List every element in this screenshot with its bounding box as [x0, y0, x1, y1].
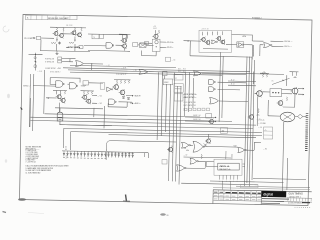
wire bus v3	[166, 84, 167, 132]
wire dash feed r1	[228, 80, 256, 83]
wire U23 out	[149, 71, 186, 74]
transistor Q7b inside	[155, 41, 158, 44]
svg-text:▪BLK L▪: ▪BLK L▪	[135, 103, 141, 105]
svg-text:▪51▪: ▪51▪	[186, 150, 189, 152]
gate U20 big	[193, 141, 203, 152]
box top bm	[206, 114, 212, 118]
diode row group 1	[63, 151, 65, 157]
wire bottom rail 2	[88, 49, 130, 52]
wire bot right band2	[253, 178, 306, 179]
transistor Q5	[122, 39, 126, 43]
gate U8 NAND	[56, 81, 63, 87]
wire bm feed1	[184, 147, 187, 149]
wire rail right tail	[136, 151, 149, 153]
box chain	[152, 39, 160, 51]
wire vcc TL2	[53, 89, 67, 91]
wire input to Q1	[41, 37, 54, 39]
resistor R10	[202, 32, 203, 36]
wire row2 to U7	[62, 61, 73, 63]
wire q16 in	[255, 92, 257, 94]
wire U17 out	[219, 100, 248, 103]
arrow out d2	[132, 103, 133, 105]
resistor R16	[84, 91, 85, 95]
gate U5 boxed	[237, 42, 244, 48]
gate U15 NAND	[209, 80, 214, 85]
box left edge F	[100, 83, 105, 89]
resistor R20	[121, 80, 122, 84]
wire bus r1	[244, 57, 247, 187]
wire U6 out up	[252, 40, 263, 42]
wire box down	[40, 40, 42, 51]
wire out r1	[298, 87, 304, 89]
arrow out d1	[132, 95, 133, 97]
IC side ticks	[243, 163, 245, 165]
faint arc left margin	[3, 26, 9, 32]
faint mark below frame	[28, 213, 44, 214]
IC U22 ONE SHOT	[218, 163, 239, 170]
vertical title strip	[306, 113, 309, 115]
column box 2	[174, 84, 183, 93]
wire U12 loop	[108, 106, 127, 108]
gate U22b	[238, 147, 245, 152]
box right col	[264, 127, 273, 139]
wire Q drop 2	[74, 44, 76, 51]
resistor R15	[65, 91, 66, 95]
IC outer box	[214, 159, 242, 175]
wire out line 2	[272, 45, 284, 47]
svg-text:▪2V▪: ▪2V▪	[58, 68, 62, 70]
tick on left border	[21, 107, 23, 109]
wire out d2	[130, 102, 133, 104]
diode row group 2	[107, 152, 109, 158]
title block grid	[213, 190, 312, 192]
wire rect right out	[232, 34, 253, 36]
wire bus r3	[249, 57, 252, 187]
transistor Q9b	[221, 40, 225, 44]
wire vcc out stage	[260, 72, 269, 74]
svg-text:H SYNC IN: H SYNC IN	[45, 58, 55, 60]
bump box above title	[241, 185, 259, 188]
resistor R28	[201, 154, 202, 159]
speck left edge	[3, 212, 7, 213]
size letter dark	[302, 202, 310, 204]
resistor R6 diag	[69, 42, 74, 43]
wire amp to U2	[84, 44, 106, 47]
wire tb feed1	[221, 181, 223, 190]
transistor Q12	[83, 95, 87, 99]
gate U9 NAND	[69, 83, 76, 89]
arrow out r2	[303, 94, 304, 96]
wire band4	[60, 125, 254, 129]
IC box U13	[163, 79, 173, 85]
wire u22b corner	[253, 143, 255, 151]
wire bus mid 3	[68, 70, 284, 75]
transistor Q10	[57, 95, 61, 99]
faint speck left 3	[5, 159, 7, 163]
wire U7 out	[84, 63, 103, 65]
transistor Q20	[210, 120, 214, 124]
wire U9-U10	[81, 85, 85, 87]
wire U2 to Q5	[116, 44, 123, 46]
wire q19 up	[207, 134, 209, 139]
svg-text:1K 2.2K: 1K 2.2K	[66, 25, 73, 27]
wire ic top links	[225, 151, 227, 159]
transistor Q4	[78, 33, 82, 37]
transistor Q14	[114, 85, 119, 90]
svg-text:ONE SHOT ▪4▪: ONE SHOT ▪4▪	[219, 169, 231, 171]
transistor Q19	[207, 139, 211, 143]
wire U15 out	[218, 81, 247, 84]
wire bus v4	[169, 84, 171, 181]
wire chain corner v	[141, 51, 143, 56]
wire rect right drop	[251, 35, 253, 41]
resistor R17	[88, 91, 89, 95]
resistor R25	[292, 72, 293, 76]
wire U5 out	[244, 44, 252, 46]
box 470	[221, 128, 228, 134]
wire band7	[109, 135, 257, 138]
svg-text:SYNC L ▪: SYNC L ▪	[23, 85, 31, 87]
wire ic left	[206, 165, 218, 167]
transistor Q7	[154, 34, 158, 38]
gate U23 OR top	[139, 69, 148, 74]
wire bus mid 2	[63, 68, 250, 72]
wire tr inner bottom	[203, 48, 228, 51]
IC pins	[218, 175, 220, 179]
gate U17 OR big	[210, 97, 219, 104]
resistor R4	[81, 27, 82, 31]
wire q3 drop	[74, 37, 76, 42]
wire down pair a	[219, 52, 220, 122]
component extra	[147, 153, 149, 158]
wire tb top line	[236, 186, 310, 188]
wire top link boxes	[88, 33, 127, 36]
transistor Q19b	[278, 101, 283, 106]
wire above title	[213, 188, 310, 190]
gate U21 small	[190, 158, 197, 164]
wire gun feed	[268, 115, 280, 117]
faint speck left 2	[7, 94, 10, 98]
wire xbox link	[138, 44, 140, 46]
wire chain in	[140, 42, 152, 44]
gate U7 OR	[76, 61, 84, 67]
smudge bottom-left corner	[18, 198, 26, 201]
diode D3	[127, 98, 129, 100]
resistor R19	[117, 80, 118, 84]
wire loop to rail	[181, 182, 211, 185]
wire arrowed left	[184, 40, 202, 42]
wire vcc center	[114, 79, 131, 81]
svg-text:digital: digital	[263, 193, 273, 197]
arrow into U3	[187, 40, 188, 42]
speck bottom mid	[160, 213, 166, 215]
svg-text:COMP SYNC: COMP SYNC	[45, 68, 57, 70]
column box 1	[174, 75, 183, 80]
wire label B in	[33, 85, 56, 88]
wire u24 corner	[204, 162, 206, 168]
wire out c1	[92, 95, 97, 97]
gate U6 NOR	[264, 43, 271, 48]
arrow out r1	[303, 88, 304, 90]
wire loop top	[111, 141, 177, 142]
resistor R13	[56, 91, 57, 95]
component on wire	[163, 71, 168, 75]
wire band5 drop	[62, 129, 64, 149]
wire bus r4	[252, 60, 255, 180]
wire U14 out	[202, 73, 247, 76]
wire vcc TL3	[81, 90, 95, 92]
wire out c2	[92, 102, 97, 104]
wire out d1	[126, 94, 133, 96]
svg-text:PD COMP: PD COMP	[24, 38, 33, 40]
wire bus left drop2	[43, 70, 46, 114]
wire q18 down	[294, 94, 296, 107]
box mid small	[166, 57, 171, 61]
wire ic bottom rail	[211, 184, 258, 185]
wire gun link	[295, 115, 298, 117]
wire vcc out 2	[290, 71, 299, 73]
connector pins row	[184, 108, 187, 111]
resistor R9	[155, 30, 156, 33]
wire out r2	[298, 93, 304, 95]
wire u7 drop	[91, 64, 93, 70]
wire chain down	[155, 52, 157, 56]
resistor R12b	[217, 32, 218, 36]
wire band5	[64, 128, 263, 132]
wire row1 to U7	[62, 57, 76, 59]
transistor Q13	[87, 99, 91, 103]
wire U5 down	[251, 45, 253, 60]
wire q rail drop	[93, 108, 95, 117]
wire U8-U9	[68, 83, 70, 85]
wire right long v	[282, 122, 283, 191]
svg-text:WT340 SHT 1: WT340 SHT 1	[290, 197, 301, 199]
wire bus v2	[161, 73, 162, 137]
resistor R18	[92, 91, 93, 95]
wire band3	[31, 120, 257, 125]
input box row1	[58, 57, 62, 60]
resistor R12c	[222, 31, 223, 35]
dotted box	[270, 89, 282, 97]
revision block	[26, 15, 78, 19]
wire rect left drop	[189, 41, 191, 56]
wire u21 out	[198, 160, 214, 162]
wire tb feed2	[229, 181, 231, 190]
transistor Q22	[169, 148, 173, 152]
wire feedback loop	[50, 77, 80, 80]
resistor R8	[127, 35, 128, 39]
wire q16 down	[256, 96, 259, 126]
wire xbox out	[146, 44, 154, 46]
wire bm low	[184, 157, 232, 158]
wire U6 feed	[259, 45, 261, 57]
fold mark bottom	[126, 195, 127, 202]
transistor Q8b	[206, 41, 210, 45]
svg-text:▪PD 1 H▪: ▪PD 1 H▪	[167, 42, 174, 44]
wire bus mid 1	[70, 65, 176, 67]
wire Q drop 1	[55, 44, 57, 51]
wire loop corner	[106, 141, 110, 149]
wire left drop2	[29, 98, 32, 127]
wire Q6 down	[124, 48, 126, 51]
wire left drop x30	[29, 74, 30, 127]
input box PD COMP	[36, 36, 40, 39]
wire diode rail 1	[62, 150, 106, 153]
wire bus v5	[172, 73, 174, 182]
wire out line 1	[271, 40, 284, 42]
wire down pair b	[222, 56, 223, 118]
transistor Q16	[257, 91, 263, 97]
resistor R23	[267, 73, 268, 77]
junction marks	[205, 144, 206, 145]
svg-text:— V2: — V2	[98, 103, 102, 105]
wire u24 out	[186, 167, 205, 169]
wire q1 drop	[56, 37, 58, 41]
arrow lower out1	[215, 117, 216, 119]
svg-text:▪PD 2 L▪: ▪PD 2 L▪	[167, 47, 174, 49]
wire right long v2	[286, 158, 289, 190]
wire loop left v	[105, 148, 107, 160]
resistor R14	[60, 91, 61, 95]
transistor Q2	[60, 34, 64, 38]
wire band6	[71, 132, 263, 136]
wire rail drop 2	[103, 106, 106, 128]
transistor Q11	[61, 98, 65, 102]
svg-text:▪POS SYNC H▪: ▪POS SYNC H▪	[184, 94, 197, 96]
transistor Q21	[249, 115, 253, 119]
label box right of SYNC	[79, 46, 83, 49]
diode D2	[122, 97, 124, 99]
wire bus mid 4	[70, 72, 222, 75]
wire band2	[31, 117, 233, 121]
transistor Q6	[123, 44, 127, 48]
CRT gun symbol	[280, 112, 295, 122]
svg-text:REVISIONS CHG NO: REVISIONS CHG NO	[48, 18, 67, 20]
wire bus drop right1	[252, 72, 254, 85]
resistor R12	[212, 32, 213, 36]
arrowhead diag	[283, 80, 284, 82]
gate U2 NAND	[106, 43, 112, 49]
diamond terminal	[298, 114, 303, 118]
wire band6 drop	[69, 132, 71, 150]
routing rect top-right	[199, 30, 232, 52]
wire Vcc Q5	[119, 33, 131, 35]
svg-text:▪CLK L▪ —: ▪CLK L▪ —	[284, 46, 293, 48]
wire chain out B	[160, 46, 166, 48]
box small J	[162, 160, 167, 164]
resistor R1	[57, 28, 58, 32]
wire rect bottom ext	[190, 56, 252, 57]
wire tr inner link	[226, 43, 237, 45]
box F3	[133, 43, 138, 47]
wire q11 down	[58, 103, 60, 108]
svg-text:M302: M302	[164, 82, 168, 84]
wire box corner down	[126, 34, 128, 42]
transistor Q8	[202, 38, 206, 42]
logo box digital	[261, 191, 286, 198]
wire left in C	[46, 97, 57, 99]
xbox X1	[140, 43, 147, 47]
wire gun out	[303, 116, 307, 118]
gate U24 left edge	[177, 165, 185, 171]
resistor R21b	[129, 80, 130, 84]
svg-text:▪123▪: ▪123▪	[242, 36, 246, 38]
svg-text:D | BS | WT340-0-1: D | BS | WT340-0-1	[288, 203, 303, 205]
svg-text:— V1: — V1	[98, 95, 102, 97]
arrow left in C	[47, 97, 48, 99]
svg-text:GUN TIMING: GUN TIMING	[289, 192, 303, 195]
gate U19 NOR	[182, 142, 190, 148]
svg-text:T2: T2	[171, 146, 173, 148]
resistor R3	[75, 27, 76, 31]
transistor Q18	[292, 88, 298, 94]
transistor Q3	[72, 31, 76, 35]
wire bottom rail TL	[40, 51, 90, 52]
wire box to q18	[282, 89, 293, 91]
wire diode rail 2	[107, 151, 136, 154]
transistor Q9	[217, 37, 221, 41]
wire band1	[45, 114, 201, 117]
wire bus v6	[176, 86, 178, 182]
arrow lower out2	[215, 121, 216, 123]
wire bus v1	[157, 72, 158, 140]
title small grid	[287, 197, 312, 200]
wire u22b out	[246, 149, 254, 151]
faint dots below title	[294, 206, 297, 209]
logo sub rows	[262, 198, 289, 201]
box bias	[145, 42, 149, 45]
wire left stub v	[34, 53, 36, 71]
wire u20 to u22b	[205, 145, 238, 148]
resistor R11	[207, 32, 208, 36]
wire chain out A	[160, 41, 166, 43]
wire lower out2	[185, 120, 216, 123]
gate U12 NAND	[109, 99, 115, 105]
box F2	[99, 34, 103, 38]
capacitor C1	[59, 42, 61, 45]
box F1	[92, 34, 99, 39]
wire dash feed r2	[228, 84, 256, 87]
svg-text:▪BLK H▪: ▪BLK H▪	[135, 95, 141, 97]
wire U10 out	[89, 82, 104, 84]
wire gates feed v	[184, 72, 187, 116]
inverter U11	[107, 87, 112, 92]
resistor R2	[63, 28, 64, 32]
border frame	[20, 15, 313, 206]
resistor R26	[296, 72, 297, 76]
wire U6 loop	[252, 45, 254, 57]
wire bot right band	[210, 181, 284, 183]
wire bus v7	[179, 86, 181, 185]
resistor R28v	[258, 109, 259, 113]
input box row2	[58, 60, 62, 63]
wire bus drop right2	[286, 75, 288, 86]
wire Vcc rail top-left	[50, 26, 86, 29]
wire lower out1	[185, 116, 216, 119]
wire U12 out	[119, 101, 133, 103]
svg-text:V SYNC IN: V SYNC IN	[45, 61, 55, 63]
wire crystal up	[58, 108, 60, 112]
wire left v second	[33, 74, 34, 131]
svg-text:74: 74	[93, 37, 95, 39]
resistor R5 diag	[51, 43, 56, 44]
gate U16 NAND	[209, 87, 214, 92]
resistor R9b	[159, 30, 160, 33]
gate U14 OR	[194, 71, 202, 76]
wire crystal rail	[60, 125, 113, 126]
svg-text:▪CLK H▪ —: ▪CLK H▪ —	[284, 41, 293, 43]
transistor Q15	[120, 90, 125, 95]
